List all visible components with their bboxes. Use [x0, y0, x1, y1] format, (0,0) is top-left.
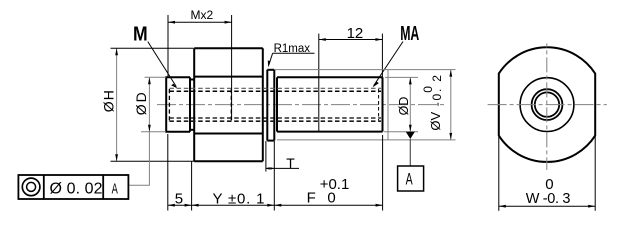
svg-text:A: A — [112, 180, 119, 197]
arrow 5 left — [168, 204, 175, 207]
hidden hole left dashed vertical — [168, 89, 170, 121]
dimension Mx2 left extension — [167, 15, 169, 77]
wire collar left face — [266, 70, 268, 141]
dimension ØH line — [116, 48, 118, 161]
svg-text:Mx2: Mx2 — [191, 8, 214, 22]
dimension W left extension — [498, 136, 500, 211]
svg-text:0: 0 — [327, 189, 335, 206]
datum A stem — [409, 139, 411, 166]
svg-text:12: 12 — [347, 25, 364, 42]
wire cylinder bottom edge — [277, 131, 383, 133]
dimension ØV line — [450, 70, 452, 140]
dimension ØD right bottom extension — [384, 131, 418, 133]
svg-text:T: T — [286, 155, 295, 171]
extension right face — [382, 135, 384, 211]
hidden hole lower dashed line — [169, 117, 381, 119]
feature control frame box — [18, 175, 128, 199]
wire flange left face — [193, 48, 195, 161]
dimension 12 line — [319, 39, 383, 41]
concentricity symbol outer circle — [22, 178, 40, 196]
arrow 5 right — [185, 204, 192, 207]
dimension ØD left bottom extension — [141, 131, 166, 133]
dimension W right extension — [594, 136, 596, 211]
dimension 12 left extension — [318, 34, 320, 132]
dimension ØH top extension — [111, 47, 194, 49]
centerline main axis — [157, 104, 446, 106]
svg-text:5: 5 — [175, 191, 183, 208]
wire flange right face — [262, 48, 264, 161]
svg-text:ØD: ØD — [397, 97, 411, 116]
svg-text:F: F — [307, 189, 316, 206]
dimension T line — [266, 167, 299, 169]
wire left face of part — [165, 77, 167, 131]
svg-text:M: M — [133, 23, 148, 45]
wire flange bottom edge — [194, 160, 263, 162]
dimension ØD left top extension — [145, 76, 167, 78]
dimension ØD right line — [409, 77, 411, 131]
wire collar top edge — [267, 69, 274, 71]
right view cylinder circle — [520, 78, 574, 132]
bottom dimension line 5 Y F — [168, 204, 383, 206]
svg-text:Y ±0. 1: Y ±0. 1 — [213, 191, 266, 208]
svg-text:A: A — [406, 169, 414, 188]
arrow Y right — [267, 204, 274, 207]
wire thread end line M — [189, 77, 191, 131]
arrow F left — [274, 204, 281, 207]
svg-text:ØV: ØV — [428, 111, 443, 130]
dimension 12 right extension — [381, 34, 383, 78]
datum A triangle — [406, 132, 415, 139]
wire flange flat upper line — [194, 76, 263, 78]
dimension T left extension — [265, 141, 267, 172]
right view outer profile — [499, 47, 595, 162]
dimension ØV top extension — [275, 69, 456, 71]
wire stub bottom edge — [165, 131, 190, 133]
hidden hole upper dashed line — [169, 90, 381, 92]
dimension ØD right top extension — [385, 76, 418, 78]
arrow F right — [376, 204, 383, 207]
svg-text:W -0. 3: W -0. 3 — [526, 191, 571, 207]
thread MA chamfer dashed vertical — [378, 89, 380, 121]
wire collar right face — [273, 70, 275, 141]
wire stub top edge — [165, 76, 190, 78]
wire flange flat lower line — [194, 133, 263, 135]
right view hole circle — [535, 92, 559, 116]
thread M depth dashed vertical — [230, 89, 232, 121]
right view thread circle — [532, 89, 563, 120]
hidden thread major upper dashed line — [169, 87, 381, 89]
leader for R1max — [269, 53, 273, 65]
dimension ØD left line with FCF leader — [128, 77, 149, 185]
svg-text:ØD: ØD — [133, 90, 149, 115]
right view vertical centerline — [546, 43, 548, 170]
wire collar bottom edge — [267, 140, 274, 142]
dimension Mx2 line — [168, 21, 232, 23]
svg-text:Ø 0. 02: Ø 0. 02 — [50, 181, 103, 198]
leader for M — [148, 42, 177, 87]
datum A box — [398, 166, 424, 191]
wire cylinder top edge — [277, 76, 383, 78]
wire right end face — [382, 77, 384, 131]
dimension W line — [499, 205, 595, 207]
wire flange top edge — [194, 47, 263, 49]
extension left face — [167, 134, 169, 211]
dimension ØV bottom extension — [277, 139, 456, 141]
extension flange left — [191, 162, 193, 211]
concentricity symbol inner circle — [27, 182, 36, 191]
projection grey vertical at end face — [387, 70, 389, 140]
svg-text:MA: MA — [400, 22, 419, 45]
dimension ØH bottom extension — [111, 160, 195, 162]
dimension Mx2 right extension — [231, 15, 233, 120]
extension collar right — [273, 141, 275, 211]
right view horizontal centerline — [488, 104, 607, 106]
wire neck top edge — [190, 79, 194, 81]
leader for MA — [374, 42, 403, 86]
wire cylinder shoulder line — [276, 77, 278, 131]
svg-text:-0. 2: -0. 2 — [430, 73, 444, 106]
svg-text:ØH: ØH — [101, 89, 117, 112]
arrow Y left — [192, 204, 199, 207]
hidden thread major lower dashed line — [169, 120, 381, 122]
wire neck bottom edge — [190, 129, 194, 131]
